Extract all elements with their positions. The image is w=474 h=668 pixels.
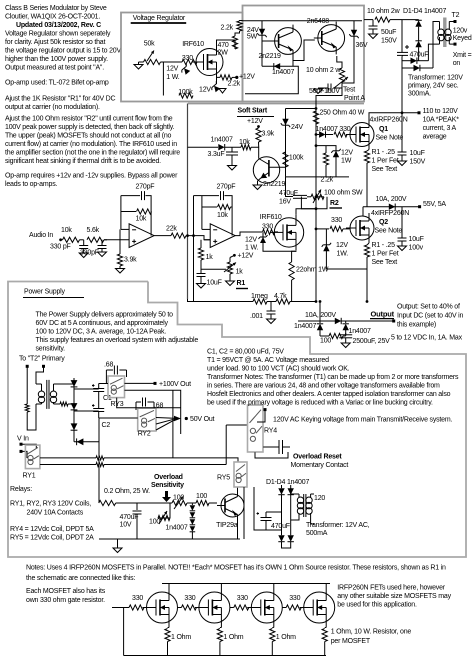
zener 12V 1W (Q2) [325, 229, 327, 269]
svg-text:100v: 100v [409, 245, 424, 252]
transistor 2n6488 [318, 25, 345, 52]
capacitor 10uF opamp [200, 269, 202, 273]
wire bridge top [402, 19, 419, 21]
bottom feedback wire [188, 299, 254, 302]
terminal [20, 443, 23, 446]
svg-text:1 Ohm: 1 Ohm [276, 634, 296, 641]
wire break [25, 404, 29, 412]
capacitor 270pF (U1b) [220, 191, 222, 200]
bridge bottom out [74, 441, 99, 443]
svg-text:Overload: Overload [154, 474, 183, 481]
IRF610 source down [292, 250, 296, 262]
terminal output [392, 320, 395, 323]
resistor 1 Ohm 2 [220, 626, 222, 628]
svg-text:330: 330 [262, 224, 273, 231]
svg-text:Hosfelt Electronics and other: Hosfelt Electronics and other dealers. A… [207, 391, 451, 398]
capacitor 2500uF 25V [345, 333, 347, 335]
fuse diode 10A 200V [389, 204, 395, 210]
svg-text:higher than the 100V power sup: higher than the 100V power supply. [5, 56, 108, 63]
voltage regulator enclosure box [243, 6, 365, 102]
opamp2 fb 10k row [202, 206, 217, 208]
svg-text:2.2k: 2.2k [221, 25, 234, 32]
svg-text:1n4007: 1n4007 [349, 328, 371, 335]
RY5 right contact down [243, 487, 245, 539]
wire [262, 40, 276, 42]
resistor 1 Ohm 1 [168, 626, 170, 628]
sense right [187, 502, 196, 504]
svg-text:1k: 1k [206, 254, 214, 261]
feedback 10k row [121, 211, 136, 213]
transformer 12V primary [297, 497, 303, 503]
svg-text:1n4007: 1n4007 [211, 137, 233, 144]
svg-text:1 W.: 1 W. [166, 74, 179, 81]
resistor 330 (VR) [182, 59, 197, 64]
wire break [96, 456, 104, 460]
transistor TIP29a [221, 494, 244, 517]
ground [138, 62, 140, 65]
T1 primary feed 1b [27, 404, 36, 430]
svg-text:T2: T2 [452, 12, 460, 19]
resistor 2.2k [325, 146, 327, 153]
svg-text:Transformer Notes: The transf: Transformer Notes: The transformer (T1) … [207, 374, 459, 381]
capacitor 470uF [397, 51, 408, 53]
terminal [454, 43, 457, 46]
opamp1 - wire [121, 228, 129, 230]
ground [113, 548, 122, 553]
sense mid [116, 502, 172, 504]
svg-text:output at carrier (no modulati: output at carrier (no modulation). [5, 104, 100, 111]
svg-text:Q2: Q2 [379, 219, 388, 226]
fuse diode output [335, 318, 341, 324]
diode string 1n4007 [191, 504, 193, 505]
transformer T1 secondary [54, 383, 61, 385]
svg-text:R1 - .25: R1 - .25 [372, 242, 396, 249]
svg-text:T1 = 95VCT @ 5A. AC Voltage: T1 = 95VCT @ 5A. AC Voltage measured [207, 357, 329, 364]
svg-text:330: 330 [237, 595, 248, 602]
voltage regulator box part A [121, 13, 243, 102]
capacitor .68 (RY2) [136, 401, 141, 403]
momentary contact [278, 440, 280, 454]
svg-text:10uF: 10uF [207, 280, 222, 287]
svg-text:5.6k: 5.6k [87, 227, 100, 234]
zener 24V 5W [261, 21, 263, 44]
svg-text:2W: 2W [218, 50, 229, 57]
diode D1k [278, 488, 284, 494]
label +12V [233, 254, 236, 257]
svg-text:See Note: See Note [375, 228, 403, 235]
potentiometer 100 ohm SW [311, 194, 324, 199]
mosfet IRF610 (VR) [196, 49, 223, 76]
svg-text:See Text: See Text [372, 259, 398, 266]
arrow overload [162, 491, 171, 502]
zener to bottom wire [263, 243, 296, 251]
svg-text:D1-D4 1n4007: D1-D4 1n4007 [266, 479, 309, 486]
RY3 in [99, 383, 108, 385]
resistor R1 .25 (Q2) [367, 243, 369, 245]
svg-text:+100V Out: +100V Out [159, 381, 191, 388]
output wire [298, 320, 394, 322]
zener 36V [353, 21, 355, 48]
svg-text:Input DC (set to 40V in: Input DC (set to 40V in [397, 313, 464, 320]
svg-text:be used if the primary voltage: be used if the primary voltage is reduce… [207, 400, 433, 407]
Q2 gate wire [316, 228, 329, 230]
drain stub 4 [325, 584, 327, 590]
svg-text:470uF: 470uF [120, 514, 139, 521]
VR lower wire [245, 66, 298, 94]
resistor 100 output [329, 333, 343, 338]
svg-text:10k: 10k [217, 212, 228, 219]
svg-text:2n6488: 2n6488 [307, 18, 329, 25]
transformer T2 primary coil [439, 22, 441, 30]
potentiometer 1k R1 [229, 258, 231, 263]
resistor 330 gate 2 [181, 605, 196, 610]
svg-text:55V, 5A: 55V, 5A [423, 201, 446, 208]
wire 4.7k to rail [290, 301, 316, 303]
ground stub [117, 539, 119, 548]
relay RY2 [138, 408, 156, 431]
R2 wiring box [301, 197, 327, 209]
resistor 3.9k soft start [258, 127, 260, 129]
svg-text:IRFP260N FETs used here, how: IRFP260N FETs used here, however [337, 585, 445, 592]
opamp2 fb right [225, 196, 233, 236]
capacitor .68 (RY3) [106, 369, 113, 371]
RY3 lower contact wire [117, 398, 181, 408]
C1 feed [74, 388, 99, 390]
RY2 out a [156, 417, 174, 420]
svg-text:250 Ohm 40 W: 250 Ohm 40 W [320, 110, 365, 117]
svg-text:10uF: 10uF [409, 236, 424, 243]
svg-text:.68: .68 [104, 362, 113, 369]
xfmr12 wire2 [311, 493, 314, 495]
resistor 2.2k (VR) [237, 21, 242, 31]
diode 1n4007 output b [345, 321, 347, 323]
ground [318, 87, 322, 89]
wire 2n2219 emitter to 2n6488 base [293, 40, 315, 61]
mosfet IRFP260N 1 [147, 592, 178, 623]
svg-text:+12V: +12V [238, 252, 254, 259]
svg-text:10V: 10V [120, 522, 132, 529]
IRF610 drain up [296, 209, 316, 215]
svg-text:1 Per Fet: 1 Per Fet [372, 251, 399, 258]
RY4 bottom wire [255, 452, 288, 458]
diode D2 [415, 41, 421, 47]
resistor 470 2W [232, 36, 237, 49]
resistor 330 IRF610 [263, 229, 275, 234]
Q1 source wire [367, 150, 369, 152]
diode 1n4007 output a [319, 321, 321, 323]
relay RY1 [25, 445, 40, 469]
feedback top right [146, 196, 152, 236]
svg-text:IRF610: IRF610 [182, 41, 204, 48]
svg-text:10uF: 10uF [410, 150, 425, 157]
T2 right bottom [449, 43, 455, 45]
resistor 1k [200, 240, 202, 248]
svg-text:+12V: +12V [247, 118, 263, 125]
wire between [267, 301, 276, 303]
svg-text:V In: V In [17, 436, 29, 443]
svg-text:470uF: 470uF [279, 190, 298, 197]
svg-text:3.9k: 3.9k [262, 131, 275, 138]
svg-text:Ajust the 1K Resistor "R1" for: Ajust the 1K Resistor "R1" for 40V DC [5, 96, 116, 103]
svg-text:470uF: 470uF [410, 52, 429, 59]
drain bus [162, 583, 330, 585]
resistor 3.9k to ground [119, 229, 121, 254]
output drop [319, 302, 321, 322]
svg-text:100: 100 [173, 495, 184, 502]
opamp1 feedback top [121, 195, 140, 197]
resistor 1 Ohm 4 [325, 626, 327, 628]
svg-text:the schematic are connected li: the schematic are connected like this: [26, 575, 135, 582]
TIP collector [237, 487, 239, 491]
svg-text:Point A: Point A [344, 95, 365, 102]
diode 1n4007 Q1 gate [319, 131, 325, 137]
V In wire 1 [21, 444, 36, 448]
mosfet Q2 4xIRFP260N [350, 216, 374, 240]
terminal 50V [185, 417, 188, 420]
xfmr12 wires [291, 488, 299, 494]
svg-text:Voltage Regulator: Voltage Regulator [133, 15, 186, 22]
feedback 10k right [150, 211, 152, 213]
RY4 feed [226, 424, 247, 426]
bridge left rail [401, 20, 403, 53]
drain stub 2 [220, 584, 222, 590]
svg-text:on: on [453, 60, 461, 67]
svg-text:TIP29a: TIP29a [216, 522, 238, 529]
svg-text:120: 120 [314, 495, 325, 502]
svg-text:Audio In: Audio In [29, 232, 53, 239]
svg-text:10k: 10k [136, 216, 147, 223]
svg-text:Output: Output [371, 310, 395, 319]
capacitor 10uF 150V [401, 113, 403, 152]
opamp2 + wire [204, 239, 210, 241]
diode 1n4007 soft start [218, 144, 224, 150]
zener 36V lower wire [342, 48, 354, 83]
svg-text:RY1, RY2, RY3 120V Coils,: RY1, RY2, RY3 120V Coils, [10, 501, 91, 508]
svg-text:the voltage regulator output i: the voltage regulator output is 15 to 20… [5, 48, 121, 55]
op-amp U1a [129, 224, 154, 248]
sense drop c [98, 466, 100, 504]
opamp2 out [235, 232, 262, 236]
resistor 330 gate 3 [234, 605, 249, 610]
capacitor 50uF 150V filter [372, 20, 374, 26]
svg-text:36V: 36V [356, 42, 368, 49]
potentiometer 100 c [169, 503, 171, 518]
svg-text:60V DC at 5 A continuous, and: 60V DC at 5 A continuous, and approximat… [36, 320, 169, 327]
capacitor .001 [270, 302, 272, 312]
svg-text:2500uF, 25V: 2500uF, 25V [353, 338, 391, 345]
svg-text:12V: 12V [166, 66, 178, 73]
470 to 2.2k [235, 31, 240, 36]
svg-text:current flow) at carrier (no m: current flow) at carrier (no modulation)… [5, 141, 177, 148]
svg-text:50k: 50k [144, 41, 155, 48]
svg-text:See Text: See Text [372, 166, 398, 173]
svg-text:2n2219: 2n2219 [263, 181, 285, 188]
svg-text:for clarity. Ajust 50k resist: for clarity. Ajust 50k resistor so that [5, 39, 105, 46]
svg-text:Output: Set to 40% of: Output: Set to 40% of [397, 304, 460, 311]
soft start top rail [286, 108, 317, 110]
capacitor 270pF (U1a) [141, 191, 143, 200]
svg-text:Voltage Regulator shown sepera: Voltage Regulator shown seperately [5, 31, 111, 38]
resistor 22k [171, 233, 186, 238]
svg-text:500mA: 500mA [306, 530, 328, 537]
terminal keying [264, 408, 267, 411]
diode D3k [278, 535, 284, 541]
svg-text:Soft Start: Soft Start [238, 108, 268, 115]
wire emitter node down [292, 61, 294, 67]
svg-text:this example): this example) [397, 322, 436, 329]
zener 12V 1W (VR) [179, 64, 191, 76]
RY2 out b [156, 419, 174, 424]
junction [186, 234, 189, 237]
RY4 feed drop [225, 425, 227, 465]
svg-text:270pF: 270pF [136, 184, 155, 191]
source bus [124, 655, 326, 657]
resistor 330 Q1 gate [334, 132, 347, 137]
keying wire [257, 418, 265, 422]
svg-text:100 to 120V DC, 3 A. average,: 100 to 120V DC, 3 A. average, 10-12A Pea… [36, 329, 167, 336]
svg-text:Overload Reset: Overload Reset [293, 454, 342, 461]
Q2 drain rail [363, 206, 420, 208]
svg-text:10A *PEAK*: 10A *PEAK* [423, 117, 460, 124]
xfmr12 bottom2 [311, 517, 314, 524]
resistor 10 ohm 2 w [339, 68, 344, 82]
reset wire [263, 446, 279, 448]
opamp1 out [154, 235, 171, 237]
resistor 1meg [253, 299, 267, 304]
transformer T1 primary [36, 383, 42, 385]
svg-text:C2: C2 [102, 422, 111, 429]
relay RY3 [108, 376, 125, 398]
main amplifier box top border [188, 103, 364, 105]
svg-text:4.7k: 4.7k [274, 293, 287, 300]
ground [79, 253, 88, 258]
Q1 source to mid rail [366, 163, 368, 207]
source bus left riser [123, 608, 125, 656]
svg-text:2.2k: 2.2k [228, 81, 241, 88]
VR top rail wire [243, 20, 363, 22]
ground [341, 343, 350, 348]
opamp2 - wire [202, 228, 210, 230]
terminal +100V [154, 382, 157, 385]
bridge2 rails [281, 485, 283, 488]
rectifier diode D2 [71, 403, 78, 410]
resistor 2.2k source [220, 75, 232, 80]
resistor 10k feedback (U1b) [218, 204, 231, 209]
capacitor 50uF 150V [327, 84, 329, 93]
100V keyed drop [172, 390, 174, 458]
svg-text:in series. There are various: in series. There are various 24, 48 and … [207, 383, 440, 390]
Q1 gate wire [316, 134, 319, 136]
transformer T1 core [46, 380, 48, 409]
ground [197, 284, 206, 289]
svg-text:300mA.: 300mA. [408, 91, 431, 98]
svg-text:470: 470 [218, 42, 229, 49]
svg-text:12V: 12V [245, 237, 257, 244]
cap bottom [266, 529, 282, 531]
svg-text:330pF: 330pF [80, 250, 99, 257]
transformer 12V secondary [306, 497, 312, 503]
soft start input wire [188, 146, 219, 148]
svg-text:Op-amp used: TL-072 Bifet op-a: Op-amp used: TL-072 Bifet op-amp [5, 80, 109, 87]
capacitor 330 pF [80, 239, 84, 241]
diode D3 [402, 60, 411, 62]
svg-text:330 pF: 330 pF [50, 244, 71, 251]
3.9k to base node [258, 142, 260, 147]
zener 12V 1W (IRF610) [262, 232, 264, 242]
opamp2 feedback top [202, 195, 219, 197]
rectifier diode D4 [77, 438, 84, 445]
svg-text:10A, 200V: 10A, 200V [305, 312, 336, 319]
svg-text:Ajust the 100 Ohm resistor "R2: Ajust the 100 Ohm resistor "R2" until cu… [5, 116, 173, 123]
svg-text:1n4007: 1n4007 [165, 525, 187, 532]
wire 470uF row [286, 177, 294, 197]
svg-text:1n4007: 1n4007 [272, 69, 294, 76]
sense drop b [98, 459, 100, 464]
svg-text:330: 330 [331, 217, 342, 224]
svg-text:average: average [423, 134, 447, 141]
cap top wire [266, 511, 282, 513]
svg-text:120v: 120v [453, 28, 468, 35]
wire into box [193, 235, 195, 237]
opamp2 feedback left [201, 196, 203, 230]
resistor 330 gate 1 [129, 605, 144, 610]
resistor R1 .25 (Q1) [364, 151, 369, 163]
svg-text:120V AC Keying voltage from ma: 120V AC Keying voltage from main Transmi… [273, 417, 452, 424]
wire 10k to base [251, 147, 259, 158]
svg-text:RY5 = 12Vdc Coil, DPDT 2A: RY5 = 12Vdc Coil, DPDT 2A [10, 535, 94, 542]
svg-text:Output measured at test point: Output measured at test point "A". [5, 65, 104, 72]
terminal [26, 365, 29, 368]
svg-text:3.9k: 3.9k [124, 257, 137, 264]
potentiometer 100 a [172, 500, 187, 505]
capacitor 470uF keying [265, 512, 267, 518]
transistor 2n2219 (regulator) [275, 28, 302, 55]
pot to rail [316, 196, 324, 198]
svg-text:1 Ohm: 1 Ohm [223, 634, 243, 641]
diode D4k [288, 535, 294, 541]
resistor 100k [283, 152, 288, 167]
1k bottom wire [201, 260, 226, 269]
wire to bridge [390, 19, 402, 21]
svg-text:12V: 12V [341, 150, 353, 157]
transformer T2 core [443, 18, 446, 48]
svg-text:Xmit =: Xmit = [453, 52, 472, 59]
svg-text:+12V: +12V [239, 74, 255, 81]
source to +12V [232, 76, 237, 78]
RY1 out 1b [104, 458, 238, 462]
svg-text:330: 330 [289, 595, 300, 602]
RY1 out 2b [104, 464, 226, 466]
svg-text:Relays:: Relays: [10, 486, 32, 493]
V In wire 2 [21, 451, 27, 458]
svg-text:10 ohm 2w: 10 ohm 2w [367, 8, 401, 15]
svg-text:RY1: RY1 [23, 473, 36, 480]
svg-text:1meg: 1meg [251, 293, 268, 300]
sense drop [98, 418, 100, 457]
RY2 in [99, 417, 138, 419]
diode 1n4007 (regulator) [274, 63, 280, 69]
svg-text:2.2k: 2.2k [321, 177, 334, 184]
xfmr12 bottom [291, 517, 299, 520]
svg-text:240V 10A Contacts: 240V 10A Contacts [27, 510, 84, 517]
left drop [162, 62, 164, 96]
resistor 330 gate 4 [286, 605, 301, 610]
secondary lower tap b [68, 403, 74, 405]
wire 22k to opamp2 [186, 236, 210, 240]
svg-text:Transformer: 120V: Transformer: 120V [408, 75, 463, 82]
svg-text:10A, 200V: 10A, 200V [376, 196, 407, 203]
resistor 10k feedback (U1a) [137, 209, 152, 214]
